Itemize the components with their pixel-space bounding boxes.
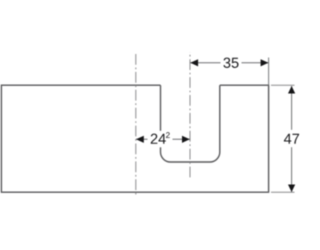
arrow 24 right	[182, 136, 190, 143]
arrow 35 left	[190, 59, 198, 66]
arrow 35 right	[261, 59, 269, 66]
arrow 47 bottom	[288, 185, 295, 193]
dimension line 24	[136, 138, 190, 140]
extension line bottom right (for 47)	[271, 191, 295, 193]
cutout	[161, 85, 220, 162]
centerline axis (cutout center)	[189, 52, 191, 180]
arrow 24 left	[136, 136, 144, 143]
label 47	[283, 130, 301, 147]
arrow 47 top	[288, 86, 295, 94]
dimension line 35	[190, 62, 268, 64]
label 35	[221, 56, 242, 70]
centerline axis (left, tap position)	[135, 52, 137, 196]
label 24 with footnote 2	[148, 131, 173, 148]
countertop outline	[1, 85, 268, 192]
dimension line 47	[291, 86, 293, 192]
extension line right edge (for 35)	[268, 58, 270, 86]
extension line top right (for 47)	[271, 84, 295, 86]
